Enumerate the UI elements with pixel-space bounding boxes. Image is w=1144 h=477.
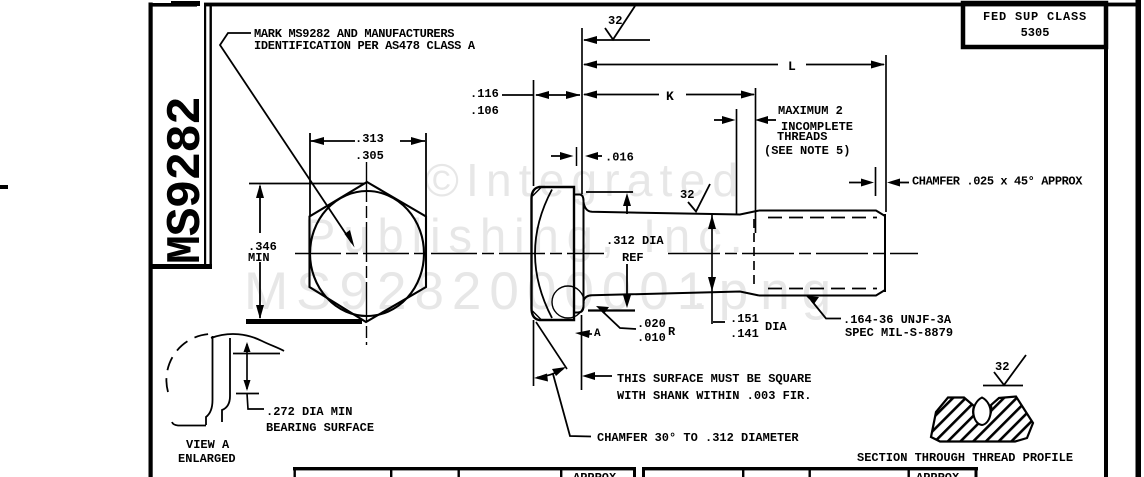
thread spec note <box>806 296 953 340</box>
surface square note <box>582 315 812 403</box>
sheet outer right border <box>1136 0 1142 477</box>
dimension .016 washer face <box>551 147 634 166</box>
bolt end face <box>884 214 886 292</box>
svg-text:.151: .151 <box>730 312 759 326</box>
dimension .313/.305 <box>310 132 426 216</box>
svg-text:.313: .313 <box>355 132 384 146</box>
left edge tick <box>0 185 8 189</box>
dimension K <box>583 89 755 104</box>
svg-text:(SEE NOTE 5): (SEE NOTE 5) <box>764 144 850 158</box>
svg-text:.164-36 UNJF-3A: .164-36 UNJF-3A <box>843 313 952 327</box>
hex vertical centerline <box>366 162 368 345</box>
svg-text:MS9282: MS9282 <box>160 97 214 264</box>
FED SUP CLASS box <box>963 3 1106 47</box>
svg-text:.116: .116 <box>470 87 499 101</box>
finish mark 32 at bearing face <box>583 6 650 44</box>
thread major dia bottom <box>759 290 885 296</box>
extension line K end <box>755 88 757 233</box>
sheet top border <box>149 3 198 7</box>
VIEW A enlarged detail <box>166 334 284 426</box>
table fragment left <box>293 467 636 477</box>
svg-text:32: 32 <box>608 14 622 28</box>
note MARK MS9282 text <box>254 27 476 53</box>
svg-text:WITH SHANK WITHIN .003 FIR.: WITH SHANK WITHIN .003 FIR. <box>617 389 811 403</box>
svg-text:FED SUP CLASS: FED SUP CLASS <box>983 10 1087 24</box>
leader to hex head center <box>220 33 352 243</box>
thread major dia top <box>759 211 885 217</box>
svg-text:SPEC MIL-S-8879: SPEC MIL-S-8879 <box>845 326 953 340</box>
svg-text:CHAMFER .025 x 45° APPROX: CHAMFER .025 x 45° APPROX <box>912 175 1083 189</box>
extension line head left <box>533 80 535 186</box>
dimension L <box>583 59 885 74</box>
dimension .346 MIN <box>246 184 365 325</box>
svg-text:K: K <box>666 89 674 104</box>
bolt side view: hex head outline <box>532 187 575 320</box>
extension line bearing face <box>581 28 583 194</box>
shank top line with fillet <box>584 202 760 215</box>
svg-text:.016: .016 <box>605 151 634 165</box>
svg-text:32: 32 <box>680 188 694 202</box>
svg-text:BEARING SURFACE: BEARING SURFACE <box>266 421 374 435</box>
svg-text:SECTION THROUGH THREAD PROFILE: SECTION THROUGH THREAD PROFILE <box>857 451 1073 465</box>
hex head front view: chamfer circle <box>310 191 424 316</box>
fillet radius note .020/.010 R <box>596 306 676 345</box>
shank bottom line with fillet <box>584 292 760 302</box>
head corner chamfer lines <box>533 188 542 197</box>
finish mark 32 on shank <box>680 184 710 212</box>
svg-text:R: R <box>668 325 676 339</box>
svg-text:VIEW A: VIEW A <box>186 438 230 452</box>
svg-text:IDENTIFICATION PER AS478 CLASS: IDENTIFICATION PER AS478 CLASS A <box>254 39 476 53</box>
MS9282 title box <box>150 3 212 269</box>
svg-text:ENLARGED: ENLARGED <box>178 452 236 466</box>
svg-text:L: L <box>788 59 796 74</box>
svg-text:APPROX: APPROX <box>916 471 960 477</box>
svg-text:32: 32 <box>995 360 1009 374</box>
thread minor dia dashed bottom <box>768 288 877 290</box>
dimension .312 DIA REF <box>588 193 664 311</box>
table fragment right <box>642 467 978 477</box>
svg-text:.020: .020 <box>637 317 666 331</box>
svg-text:DIA: DIA <box>765 320 787 334</box>
svg-text:.312 DIA: .312 DIA <box>606 234 664 248</box>
svg-text:A: A <box>594 328 601 340</box>
view A marker arrow <box>575 328 601 340</box>
svg-text:.272 DIA MIN: .272 DIA MIN <box>266 405 352 419</box>
extension line thread start / .151 dim <box>711 214 713 324</box>
view A dimension .272 <box>236 342 374 435</box>
chamfer .025 note <box>849 167 1083 196</box>
svg-text:5305: 5305 <box>1021 26 1050 40</box>
VIEW A phantom circle <box>552 286 584 318</box>
main horizontal centerline <box>295 253 604 255</box>
svg-text:THREADS: THREADS <box>777 130 827 144</box>
maximum 2 incomplete threads note <box>714 104 853 214</box>
svg-text:.141: .141 <box>730 327 759 341</box>
head facet arc <box>535 190 552 319</box>
svg-text:MS9282000001: MS9282000001 <box>244 262 714 321</box>
sheet inner right border <box>1104 3 1108 477</box>
svg-text:MIN: MIN <box>248 251 270 265</box>
washer top extension <box>586 191 633 193</box>
dimension .151/.141 DIA <box>708 215 787 341</box>
svg-text:.010: .010 <box>637 331 666 345</box>
extension line bolt end <box>885 55 887 212</box>
hex head front view: hexagon <box>310 182 427 322</box>
svg-text:REF: REF <box>622 251 644 265</box>
svg-text:APPROX: APPROX <box>573 471 617 477</box>
thread runout dashed vertical <box>753 219 755 288</box>
section through thread profile <box>931 355 1033 442</box>
chamfer 30 note with angle <box>534 320 800 445</box>
svg-text:CHAMFER 30° TO .312 DIAMETER: CHAMFER 30° TO .312 DIAMETER <box>597 431 799 445</box>
svg-text:©: © <box>425 154 459 206</box>
thread minor dia dashed top <box>768 217 877 219</box>
svg-text:MAXIMUM 2: MAXIMUM 2 <box>778 104 843 118</box>
svg-text:.106: .106 <box>470 104 499 118</box>
dimension .116/.106 head height <box>470 87 581 118</box>
svg-text:THIS SURFACE MUST BE SQUARE: THIS SURFACE MUST BE SQUARE <box>617 372 811 386</box>
sheet left border <box>149 3 153 477</box>
svg-text:.305: .305 <box>355 149 384 163</box>
washer face pad <box>574 195 584 313</box>
